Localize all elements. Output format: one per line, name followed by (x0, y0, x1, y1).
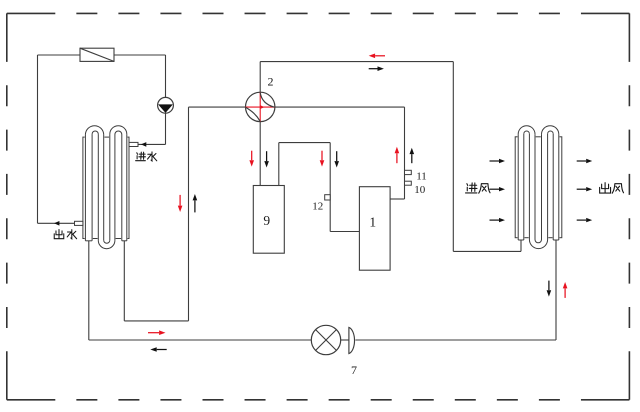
svg-text:9: 9 (263, 213, 270, 228)
svg-text:1: 1 (369, 215, 376, 230)
svg-text:7: 7 (351, 363, 357, 377)
svg-text:11: 11 (416, 171, 427, 183)
svg-text:12: 12 (312, 200, 323, 212)
svg-text:2: 2 (268, 75, 274, 89)
svg-text:10: 10 (414, 184, 426, 196)
